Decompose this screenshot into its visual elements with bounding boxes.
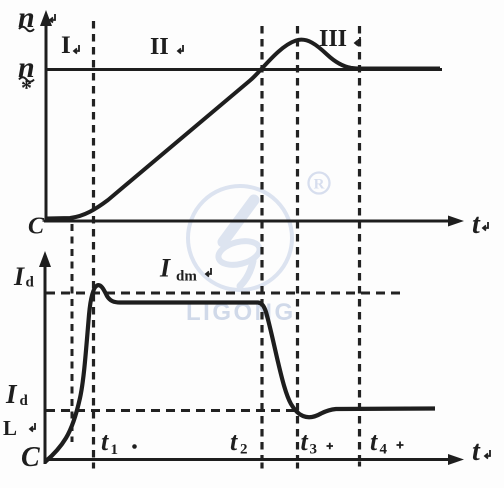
- pilcrow after II: [178, 45, 183, 54]
- plus after t3: [327, 443, 334, 450]
- pilcrow after bottom t: [485, 450, 490, 459]
- top chart x-axis: [44, 216, 464, 227]
- dashed vertical line t3 (x=297.5): [296, 26, 299, 459]
- svg-text:t: t: [370, 427, 378, 456]
- plus after t4: [397, 442, 404, 449]
- svg-text:III: III: [319, 26, 347, 52]
- svg-text:4: 4: [380, 442, 388, 458]
- dashed vertical line t1 (x=93.5): [92, 21, 95, 459]
- dashed vertical line t4 (x=359.5): [358, 26, 361, 459]
- svg-text:2: 2: [240, 442, 248, 458]
- current curve Id(t): [45, 285, 435, 462]
- svg-text:t: t: [472, 436, 481, 467]
- svg-text:t: t: [472, 209, 481, 240]
- svg-text:t: t: [230, 427, 238, 456]
- pilcrow after III: [355, 37, 360, 46]
- svg-text:d: d: [26, 275, 35, 291]
- wavy underline under n*: [19, 77, 34, 82]
- watermark bolt: [216, 200, 262, 286]
- svg-text:II: II: [150, 34, 169, 60]
- plus after t1: [132, 444, 137, 449]
- watermark registered mark: [309, 173, 330, 194]
- bottom chart x-axis: [44, 454, 464, 465]
- top chart y-axis: [40, 10, 52, 222]
- bottom chart y-axis: [39, 251, 51, 464]
- watermark logo circle: [188, 186, 292, 290]
- n* steady-state horizontal line: [46, 68, 442, 71]
- svg-text:I: I: [5, 379, 18, 409]
- pilcrow after Idm: [206, 268, 211, 277]
- speed curve n(t): [46, 40, 440, 219]
- svg-text:3: 3: [310, 442, 318, 458]
- svg-text:1: 1: [111, 442, 119, 458]
- svg-text:I: I: [13, 262, 25, 291]
- svg-text:dm: dm: [176, 269, 197, 285]
- svg-text:d: d: [20, 393, 29, 409]
- svg-text:L: L: [3, 416, 17, 440]
- svg-text:I: I: [159, 254, 171, 283]
- svg-text:*: *: [21, 75, 32, 100]
- svg-text:I: I: [61, 32, 71, 59]
- pilcrow after L: [30, 423, 35, 432]
- pilcrow after top t: [483, 222, 488, 231]
- top y-axis pilcrow mark: [50, 14, 55, 23]
- svg-text:C: C: [21, 442, 40, 473]
- svg-text:t: t: [301, 427, 309, 456]
- IdL dashed horizontal line: [46, 409, 295, 412]
- svg-text:t: t: [101, 427, 109, 456]
- svg-text:C: C: [28, 214, 45, 240]
- pilcrow after I: [74, 45, 79, 54]
- wavy underline under n: [19, 27, 34, 32]
- Idm dashed horizontal line: [46, 292, 400, 295]
- dashed vertical line t2 (x=262): [260, 26, 263, 459]
- svg-text:R: R: [314, 177, 325, 193]
- short dashed vertical line (x=72, bottom chart): [71, 224, 74, 442]
